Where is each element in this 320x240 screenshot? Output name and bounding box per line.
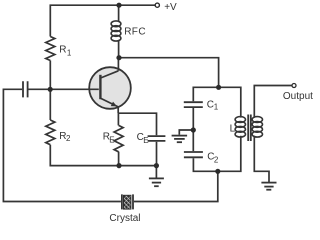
svg-text:E: E xyxy=(143,136,148,145)
svg-text:2: 2 xyxy=(66,134,71,143)
svg-text:+V: +V xyxy=(164,2,177,13)
svg-text:L: L xyxy=(230,124,236,135)
svg-text:1: 1 xyxy=(214,103,219,112)
svg-text:R: R xyxy=(59,45,66,56)
svg-text:Output: Output xyxy=(283,91,313,102)
svg-text:RFC: RFC xyxy=(124,27,146,38)
svg-text:1: 1 xyxy=(67,49,72,58)
svg-text:Crystal: Crystal xyxy=(109,213,140,224)
svg-text:E: E xyxy=(109,135,114,144)
svg-text:2: 2 xyxy=(214,155,219,164)
